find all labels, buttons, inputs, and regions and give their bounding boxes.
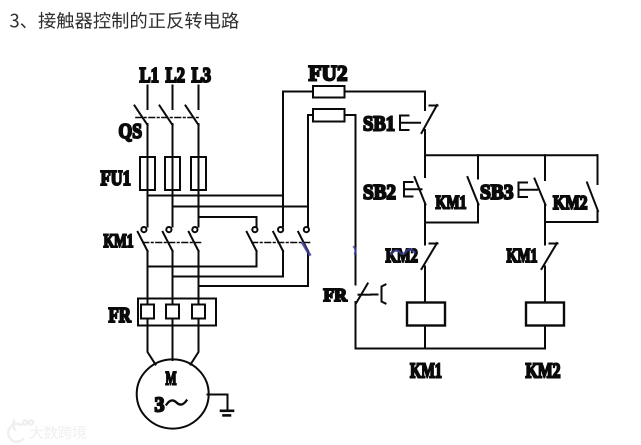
- overload FR NC contact: [356, 284, 370, 304]
- contactor KM1 latch label: [436, 193, 467, 214]
- contactor KM1 linkage: [143, 242, 202, 244]
- ground symbol: [221, 411, 233, 416]
- svg-text:KM1: KM1: [436, 193, 467, 214]
- wire SB2 bottom: [424, 205, 426, 245]
- motor M label: [166, 369, 177, 390]
- wire FU2-2 left: [308, 114, 313, 116]
- wire top control rail: [425, 154, 598, 156]
- fuse FU1 element 2: [165, 157, 180, 190]
- wire QS2 to FU1: [172, 124, 174, 227]
- button SB3 actuator: [519, 183, 538, 198]
- wire latch pair join: [425, 222, 478, 224]
- switch QS pole 3: [186, 106, 199, 126]
- wire swap E: [173, 251, 284, 277]
- contactor KM2 linkage: [252, 242, 311, 244]
- wire K4 drop: [256, 217, 258, 227]
- contactor KM1 interlock NC contact: [542, 243, 558, 269]
- wire FR through 2: [172, 299, 174, 326]
- button SB3 label: [480, 180, 514, 204]
- svg-text:KM1: KM1: [104, 231, 134, 252]
- svg-text:FU2: FU2: [309, 61, 348, 86]
- svg-text:L2: L2: [166, 63, 186, 87]
- overload FR box: [138, 299, 216, 326]
- svg-text:SB2: SB2: [363, 180, 396, 204]
- wire K5 drop: [282, 92, 284, 227]
- button SB2 actuator: [404, 182, 422, 197]
- contactor KM1 main label: [104, 231, 134, 252]
- button SB3 NO contact: [535, 179, 546, 206]
- wire swap F: [199, 251, 309, 286]
- wire latch pair join 2: [545, 221, 598, 223]
- svg-text:FR: FR: [109, 303, 132, 327]
- svg-text:KM2: KM2: [526, 359, 561, 383]
- wire SB1 top: [424, 92, 426, 111]
- fuse FU2 label: [309, 61, 348, 86]
- wire left rail lower: [355, 302, 357, 349]
- overload FR heater 1: [141, 305, 154, 319]
- svg-text:QS: QS: [119, 119, 143, 143]
- wire KM1 latch bottom: [477, 205, 479, 223]
- contactor KM1 main contact 1: [138, 227, 148, 251]
- wire QS1 to FU1: [147, 124, 149, 227]
- wire L2 drop: [172, 86, 174, 110]
- wire motor lead 1: [148, 326, 156, 365]
- svg-text:FU1: FU1: [101, 166, 132, 190]
- wire KM1 out 2: [172, 251, 174, 299]
- overload FR trip link: [372, 285, 386, 304]
- wire left rail upper: [355, 115, 357, 285]
- overload FR label: [109, 303, 132, 327]
- switch QS label: [119, 119, 143, 143]
- wire motor lead 3: [191, 326, 199, 365]
- overload FR heater 2: [166, 305, 179, 319]
- wire KM1 out 1: [147, 251, 149, 299]
- wire swap D: [148, 251, 257, 267]
- contactor KM2 main contact 2: [273, 227, 283, 251]
- wire KM1 out 3: [198, 251, 200, 299]
- wire FR through 3: [198, 299, 200, 326]
- wire KM2 interlock bottom: [424, 267, 426, 303]
- button SB2 label: [363, 180, 396, 204]
- contactor KM1 latch NO contact: [468, 177, 479, 205]
- wire FU2-1 right: [345, 91, 426, 93]
- watermark blue stroke 1: [303, 244, 310, 255]
- wire KM2 latch top: [597, 155, 599, 184]
- wire SB3 top: [544, 155, 546, 180]
- overload FR heater 3: [192, 305, 205, 319]
- wire FR through 1: [147, 299, 149, 326]
- wire FU2-1 left: [283, 91, 313, 93]
- svg-text:KM1: KM1: [507, 245, 538, 267]
- svg-text:3: 3: [155, 393, 165, 417]
- coil KM2 label: [526, 359, 561, 383]
- coil KM1: [407, 303, 445, 326]
- contactor KM1 main contact 2: [163, 227, 173, 251]
- svg-text:FR: FR: [324, 285, 348, 305]
- svg-text:L1: L1: [140, 63, 160, 87]
- motor 3~ label: [155, 393, 187, 417]
- svg-text:SB3: SB3: [480, 180, 514, 204]
- wire FU2-2 right: [345, 114, 356, 116]
- button SB1 actuator: [400, 116, 420, 131]
- svg-text:KM2: KM2: [386, 246, 419, 267]
- wire line B L2 feed: [173, 206, 309, 208]
- fuse FU2 element 1: [313, 86, 345, 98]
- svg-text:KM1: KM1: [410, 359, 442, 383]
- fuse FU2 element 2: [313, 109, 345, 122]
- button SB2 NO contact: [415, 177, 426, 205]
- wire KM2 latch bottom: [597, 211, 599, 222]
- switch QS pole 2: [160, 106, 173, 126]
- svg-text:SB1: SB1: [363, 112, 395, 136]
- svg-text:L3: L3: [192, 63, 212, 87]
- wire SB1 bottom: [424, 130, 426, 177]
- svg-text:M: M: [166, 369, 177, 390]
- overload FR contact label: [324, 285, 348, 305]
- watermark logo: [8, 420, 86, 442]
- coil KM1 label: [410, 359, 442, 383]
- switch QS linkage: [136, 117, 201, 119]
- contactor KM2 interlock NC contact: [422, 243, 438, 269]
- wire line C L3 feed: [199, 216, 257, 218]
- wire motor lead 2: [172, 326, 174, 361]
- wire KM1 interlock bottom: [544, 267, 546, 303]
- coil KM2: [526, 303, 564, 326]
- contactor KM1 interlock label: [507, 245, 538, 267]
- wire L1 drop: [147, 86, 149, 110]
- contactor KM1 main contact 3: [189, 227, 199, 251]
- svg-text:KM2: KM2: [553, 192, 588, 214]
- wire KM2 coil bottom: [544, 326, 546, 349]
- contactor KM2 main contact 1: [247, 227, 258, 251]
- button SB1 NC contact: [422, 105, 438, 133]
- fuse FU1 element 3: [191, 157, 206, 190]
- switch QS pole 1: [135, 106, 148, 126]
- node L1 label: [140, 63, 160, 87]
- wire bottom rail: [356, 348, 546, 350]
- watermark blue stroke 3: [391, 249, 415, 254]
- motor M circle: [137, 359, 209, 428]
- contactor KM2 latch NO contact: [587, 183, 598, 212]
- contactor KM2 main contact 3: [298, 227, 309, 251]
- wire K6 drop: [307, 115, 309, 227]
- title text 3、接触器控制的正反转电路: [10, 12, 239, 29]
- wire L3 drop: [198, 86, 200, 110]
- fuse FU1 label: [101, 166, 132, 190]
- contactor KM2 interlock label: [386, 246, 419, 267]
- contactor KM2 latch label: [553, 192, 588, 214]
- wire SB3 bottom: [544, 205, 546, 245]
- node L3 label: [192, 63, 212, 87]
- node L2 label: [166, 63, 186, 87]
- button SB1 label: [363, 112, 395, 136]
- ground connection: [208, 395, 228, 411]
- watermark blue stroke 2: [354, 247, 356, 254]
- wire KM1 latch top: [477, 155, 479, 178]
- wire QS3 to FU1: [198, 124, 200, 227]
- wire line A L1 feed: [148, 195, 284, 197]
- fuse FU1 element 1: [140, 157, 155, 190]
- wire KM1 coil bottom: [424, 326, 426, 349]
